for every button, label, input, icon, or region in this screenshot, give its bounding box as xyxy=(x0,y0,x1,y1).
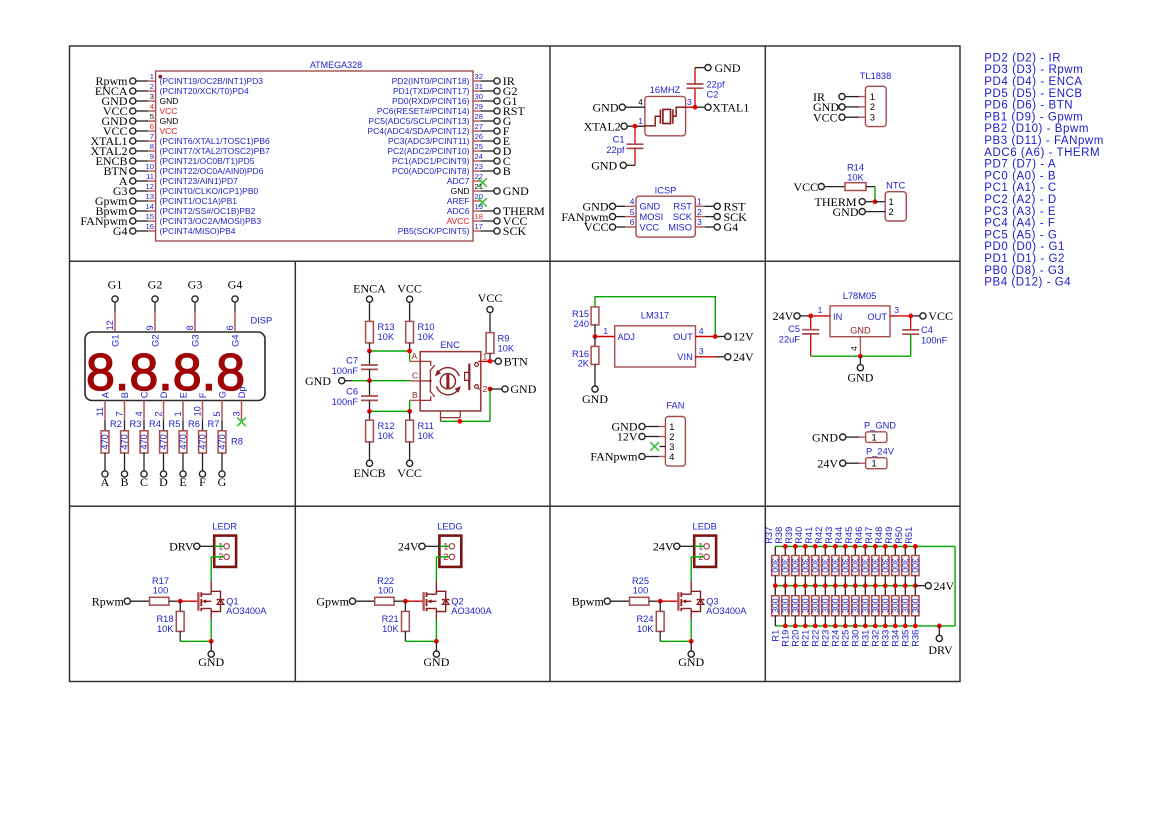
svg-text:R45: R45 xyxy=(844,527,854,544)
wire Q2 source to GND xyxy=(405,612,436,642)
svg-text:100: 100 xyxy=(633,585,649,595)
svg-text:3: 3 xyxy=(669,442,674,452)
junction bottom rail xyxy=(823,624,828,629)
GND terminal below C1 xyxy=(591,159,635,173)
svg-text:R22: R22 xyxy=(811,630,821,647)
svg-text:GND: GND xyxy=(593,100,619,114)
resistor R37 300 (top) xyxy=(764,527,780,586)
svg-text:300: 300 xyxy=(910,558,920,573)
svg-text:8: 8 xyxy=(185,325,195,330)
connector U2 TL1838 body xyxy=(860,71,892,127)
svg-text:(PCINT4/MISO)PB4: (PCINT4/MISO)PB4 xyxy=(160,226,236,236)
svg-text:7: 7 xyxy=(115,411,125,416)
net ENCB terminal xyxy=(353,460,385,480)
junction bottom rail xyxy=(843,624,848,629)
U1 pin 8 PB7 / net XTAL2 xyxy=(90,142,270,158)
svg-text:(PCINT0/CLKO/ICP1)PB0: (PCINT0/CLKO/ICP1)PB0 xyxy=(160,186,259,196)
svg-text:AO3400A: AO3400A xyxy=(706,606,747,616)
svg-text:240: 240 xyxy=(573,319,589,329)
svg-text:5: 5 xyxy=(150,112,154,121)
DS1 top pin 9 G2 / net G2 xyxy=(145,278,162,347)
svg-text:VCC: VCC xyxy=(584,220,609,234)
wire Q1 source to GND xyxy=(180,612,211,642)
resistor R44 300 (top) xyxy=(834,527,850,586)
svg-text:PC4 (A4) - F: PC4 (A4) - F xyxy=(984,218,1055,230)
svg-text:LM317: LM317 xyxy=(641,311,669,321)
resistor R12 10K xyxy=(366,411,395,460)
resistor R10 10K xyxy=(406,321,435,351)
svg-text:1: 1 xyxy=(150,72,154,81)
U1 pin 5 GND / net GND xyxy=(102,112,179,128)
svg-text:R1: R1 xyxy=(771,630,781,642)
svg-text:ADC7: ADC7 xyxy=(447,176,470,186)
J3 pin 2 / net 12V xyxy=(617,430,675,444)
junction mid rail xyxy=(833,583,838,588)
U1 pin 15 PB3 / net FANpwm xyxy=(80,212,261,228)
resistor R51 300 (top) xyxy=(904,527,920,586)
junction top rail xyxy=(903,544,908,549)
junction top rail xyxy=(883,544,888,549)
resistor R35 300 (bottom) xyxy=(900,586,910,647)
svg-text:PD4 (D4) - ENCA: PD4 (D4) - ENCA xyxy=(984,76,1082,88)
svg-text:22uF: 22uF xyxy=(779,334,801,344)
wire ENC tab to GND xyxy=(441,389,491,421)
resistor R50 300 (top) xyxy=(894,527,910,586)
resistor R16 2K xyxy=(572,337,599,386)
wire ENCB net to ENC pin B xyxy=(370,400,421,411)
DS1 bottom pin 7 B xyxy=(115,392,130,420)
svg-text:AO3400A: AO3400A xyxy=(451,606,492,616)
junction bottom rail xyxy=(903,624,908,629)
junction bottom rail xyxy=(883,624,888,629)
svg-text:G: G xyxy=(217,391,227,398)
svg-text:1: 1 xyxy=(638,116,643,126)
net F terminal xyxy=(199,471,206,489)
junction mid rail xyxy=(863,583,868,588)
svg-text:12: 12 xyxy=(105,320,115,330)
resistor R41 300 (top) xyxy=(804,527,820,586)
svg-text:GND: GND xyxy=(640,202,661,212)
junction mid rail xyxy=(813,583,818,588)
svg-text:300: 300 xyxy=(870,598,880,613)
net DRV terminal (array) xyxy=(928,626,953,657)
resistor R2 470 xyxy=(100,419,122,471)
resistor R33 300 (bottom) xyxy=(880,586,890,647)
wire LEDG pin 2 to Q2 drain xyxy=(436,557,449,594)
svg-text:C: C xyxy=(139,391,149,398)
svg-text:(PCINT2/SS#/OC1B)PB2: (PCINT2/SS#/OC1B)PB2 xyxy=(160,206,256,216)
U1 pin 4 VCC / net VCC xyxy=(103,102,178,118)
svg-text:300: 300 xyxy=(780,558,790,573)
resistor R25 300 (bottom) xyxy=(840,586,850,647)
svg-text:GND: GND xyxy=(833,205,859,219)
svg-text:26: 26 xyxy=(475,132,483,141)
wire right bus (green) xyxy=(954,546,956,626)
svg-text:R31: R31 xyxy=(861,630,871,647)
U1 pin 1 PD3 / net Rpwm xyxy=(95,72,263,88)
J1 pin 3 MISO / net G4 xyxy=(668,217,738,234)
capacitor C4 100nF xyxy=(902,316,947,356)
svg-text:6: 6 xyxy=(225,325,235,330)
junction 24V/C5 xyxy=(808,314,813,319)
svg-text:G1: G1 xyxy=(110,335,120,347)
svg-text:4: 4 xyxy=(669,452,674,462)
wire ENC pin 1 to BTN xyxy=(481,360,495,362)
net B terminal xyxy=(120,471,128,489)
svg-text:R37: R37 xyxy=(764,527,774,544)
svg-text:PC5(ADC5/SCL/PCINT13): PC5(ADC5/SCL/PCINT13) xyxy=(368,116,469,126)
net GND terminal (LEDB block) xyxy=(678,641,704,669)
U1 pin 23 PC0(ADC0/PCINT8) / net B xyxy=(392,162,511,178)
GND terminal above C2 xyxy=(695,61,741,75)
svg-text:300: 300 xyxy=(860,598,870,613)
svg-text:DRV: DRV xyxy=(928,643,953,657)
svg-text:PD5 (D5) - ENCB: PD5 (D5) - ENCB xyxy=(984,88,1082,100)
junction top rail xyxy=(853,544,858,549)
X1 pin 4 / net GND xyxy=(593,97,645,114)
svg-text:32: 32 xyxy=(475,72,483,81)
svg-text:GND: GND xyxy=(510,382,536,396)
net GND terminal (below R16) xyxy=(582,386,608,406)
svg-text:4: 4 xyxy=(849,346,859,351)
svg-text:17: 17 xyxy=(475,222,483,231)
net GND terminal (right of ENC) xyxy=(490,382,537,396)
svg-text:13: 13 xyxy=(146,192,154,201)
U1 pin 19 ADC6 / net THERM xyxy=(447,202,545,218)
resistor R24 10K xyxy=(636,601,664,641)
resistor R6 470 xyxy=(178,419,200,471)
svg-text:R44: R44 xyxy=(834,527,844,544)
svg-text:7: 7 xyxy=(150,132,154,141)
svg-text:300: 300 xyxy=(780,598,790,613)
U1 pin 11 PD7 / net A xyxy=(119,172,238,188)
DS1 bottom pin 4 C xyxy=(134,391,149,420)
svg-text:4: 4 xyxy=(630,197,635,207)
resistor R39 300 (top) xyxy=(784,527,800,586)
U1 pin 30 PD0(RXD/PCINT16) / net G1 xyxy=(392,92,517,108)
svg-text:R14: R14 xyxy=(847,162,864,172)
U2 pin 3 / net VCC xyxy=(813,110,875,124)
svg-text:R8: R8 xyxy=(231,437,243,447)
resistor R19 300 (bottom) xyxy=(780,586,790,647)
svg-text:G3: G3 xyxy=(190,335,200,347)
resistor R40 300 (top) xyxy=(794,527,810,586)
U1 pin 31 PD1(TXD/PCINT17) / net G2 xyxy=(393,82,517,98)
junction OUT xyxy=(713,334,718,339)
svg-text:C7: C7 xyxy=(346,356,358,366)
svg-text:25: 25 xyxy=(475,142,483,151)
svg-text:R42: R42 xyxy=(814,527,824,544)
svg-text:18: 18 xyxy=(475,212,483,221)
svg-text:VCC: VCC xyxy=(397,466,422,480)
J1 pin 5 MOSI / net FANpwm xyxy=(561,207,663,224)
svg-text:ADJ: ADJ xyxy=(617,332,635,342)
resistor R21 300 (bottom) xyxy=(800,586,810,647)
svg-text:PC3 (A3) - E: PC3 (A3) - E xyxy=(984,206,1056,218)
svg-text:3: 3 xyxy=(894,305,899,315)
resistor R20 300 (bottom) xyxy=(790,586,800,647)
X1 pin 1 / net XTAL2 xyxy=(584,116,645,133)
junction C6/R12 xyxy=(367,409,372,414)
svg-text:(PCINT23/AIN1)PD7: (PCINT23/AIN1)PD7 xyxy=(160,176,239,186)
svg-text:DRV: DRV xyxy=(169,540,194,554)
svg-text:24V: 24V xyxy=(773,309,794,323)
svg-text:27: 27 xyxy=(475,122,483,131)
svg-text:G4: G4 xyxy=(113,224,128,238)
junction top rail xyxy=(783,544,788,549)
svg-text:BTN: BTN xyxy=(504,354,528,368)
U1 pin 13 PB1 / net Gpwm xyxy=(95,192,237,208)
wire OUT feedback loop (green) xyxy=(595,297,715,337)
U1 pin 3 GND / net GND xyxy=(102,92,179,108)
junction top rail xyxy=(893,544,898,549)
svg-text:300: 300 xyxy=(850,558,860,573)
svg-text:470: 470 xyxy=(178,434,188,450)
junction VCC/C4 xyxy=(908,314,913,319)
resistor R1 300 (bottom) xyxy=(770,586,780,642)
net VCC terminal (R10 top) xyxy=(397,282,422,322)
svg-text:Dp: Dp xyxy=(237,386,247,398)
svg-text:R7: R7 xyxy=(208,419,220,429)
svg-text:FAN: FAN xyxy=(666,401,684,411)
IC U1 ATMEGA328 body xyxy=(156,60,473,241)
svg-text:300: 300 xyxy=(860,558,870,573)
svg-text:R30: R30 xyxy=(851,630,861,647)
svg-text:(PCINT7/XTAL2/TOSC2)PB7: (PCINT7/XTAL2/TOSC2)PB7 xyxy=(160,146,270,156)
svg-text:2: 2 xyxy=(154,411,164,416)
svg-text:OUT: OUT xyxy=(673,332,693,342)
regulator U4 L78M05 body xyxy=(830,291,890,336)
svg-text:GND: GND xyxy=(305,374,331,388)
svg-text:R21: R21 xyxy=(801,630,811,647)
svg-text:5: 5 xyxy=(212,411,222,416)
junction bottom rail xyxy=(833,624,838,629)
net GND terminal (encoder common) xyxy=(305,374,420,388)
svg-text:300: 300 xyxy=(870,558,880,573)
DS1 top pin 8 G3 / net G3 xyxy=(185,278,202,347)
svg-text:R15: R15 xyxy=(572,309,589,319)
svg-text:OUT: OUT xyxy=(867,312,887,322)
U1 pin 29 PC6(RESET#/PCINT14) / net RST xyxy=(377,102,526,118)
junction ENC tab xyxy=(458,419,463,424)
svg-text:2: 2 xyxy=(889,207,894,217)
junction R13/C7 xyxy=(367,349,372,354)
svg-text:PD3 (D3) - Rpwm: PD3 (D3) - Rpwm xyxy=(984,64,1083,76)
svg-text:100: 100 xyxy=(153,585,169,595)
DS1 bottom pin 10 F xyxy=(193,392,208,420)
svg-text:100nF: 100nF xyxy=(921,336,948,346)
junction top rail xyxy=(793,544,798,549)
net Gpwm terminal xyxy=(316,594,374,608)
wire Q3 source to GND xyxy=(660,612,691,642)
svg-text:PC1 (A1) - C: PC1 (A1) - C xyxy=(984,182,1056,194)
svg-text:PC1(ADC1/PCINT9): PC1(ADC1/PCINT9) xyxy=(392,156,470,166)
ENC switch contacts A/C/B xyxy=(412,351,435,401)
svg-text:PD2 (D2) - IR: PD2 (D2) - IR xyxy=(984,52,1061,64)
svg-text:B: B xyxy=(120,392,130,398)
net GND terminal (LEDR block) xyxy=(198,641,224,669)
resistor R36 300 (bottom) xyxy=(910,586,920,647)
svg-text:R4: R4 xyxy=(149,419,161,429)
svg-text:R50: R50 xyxy=(894,527,904,544)
wire 24V rail top (green) xyxy=(775,545,955,547)
svg-text:R39: R39 xyxy=(784,527,794,544)
junction top rail xyxy=(843,544,848,549)
svg-text:PB3 (D11) - FANpwm: PB3 (D11) - FANpwm xyxy=(984,135,1104,147)
junction bottom rail xyxy=(793,624,798,629)
svg-text:GND: GND xyxy=(198,655,224,669)
resistor R47 300 (top) xyxy=(864,527,880,586)
svg-text:B: B xyxy=(412,390,418,400)
svg-text:Rpwm: Rpwm xyxy=(92,594,125,608)
net DRV terminal (LEDR pin 1) xyxy=(169,540,224,554)
resistor R48 300 (top) xyxy=(874,527,890,586)
svg-text:10K: 10K xyxy=(378,431,395,441)
svg-text:R2: R2 xyxy=(110,419,122,429)
junction mid rail xyxy=(793,583,798,588)
svg-text:R13: R13 xyxy=(378,322,395,332)
U1 pin 28 PC5(ADC5/SCL/PCINT13) / net G xyxy=(368,112,511,128)
net Rpwm terminal xyxy=(92,594,150,608)
svg-text:10K: 10K xyxy=(382,624,399,634)
net VCC terminal xyxy=(794,180,846,194)
svg-text:11: 11 xyxy=(146,172,154,181)
svg-text:24V: 24V xyxy=(934,579,955,593)
junction top rail xyxy=(813,544,818,549)
svg-text:1: 1 xyxy=(603,326,608,336)
net 24V terminal (LEDB pin 1) xyxy=(653,540,704,554)
svg-text:PC2(ADC2/PCINT10): PC2(ADC2/PCINT10) xyxy=(387,146,469,156)
DS1 bottom pin 1 E xyxy=(173,392,188,420)
resistor R18 10K xyxy=(156,601,184,641)
net BTN terminal xyxy=(495,354,528,368)
svg-text:300: 300 xyxy=(820,598,830,613)
svg-text:VCC: VCC xyxy=(160,106,178,116)
svg-text:300: 300 xyxy=(790,558,800,573)
svg-text:R46: R46 xyxy=(854,527,864,544)
svg-text:22pf: 22pf xyxy=(606,145,625,155)
svg-text:IN: IN xyxy=(833,312,842,322)
svg-text:R10: R10 xyxy=(418,322,435,332)
svg-text:G3: G3 xyxy=(188,278,203,292)
U1 pin 27 PC4(ADC4/SDA/PCINT12) / net F xyxy=(367,122,509,138)
svg-text:PC0(ADC0/PCINT8): PC0(ADC0/PCINT8) xyxy=(392,166,470,176)
svg-text:PD0 (D0) - G1: PD0 (D0) - G1 xyxy=(984,241,1065,253)
svg-text:GND: GND xyxy=(678,655,704,669)
no-connect X on Dp pin xyxy=(237,418,246,427)
svg-text:R40: R40 xyxy=(794,527,804,544)
svg-text:PB0 (D8) - G3: PB0 (D8) - G3 xyxy=(984,265,1064,277)
svg-text:ICSP: ICSP xyxy=(655,186,677,196)
svg-text:2: 2 xyxy=(669,432,674,442)
svg-text:10: 10 xyxy=(146,162,154,171)
capacitor C6 100nF xyxy=(332,381,378,412)
svg-text:14: 14 xyxy=(146,202,154,211)
resistor R23 300 (bottom) xyxy=(820,586,830,647)
svg-text:24V: 24V xyxy=(653,540,674,554)
J1 pin 4 GND / net GND xyxy=(583,197,661,214)
junction bottom rail xyxy=(813,624,818,629)
junction R11/pin B xyxy=(407,409,412,414)
svg-text:ENCA: ENCA xyxy=(353,282,386,296)
U3 pin 1 ADJ wire xyxy=(595,326,615,337)
svg-text:C6: C6 xyxy=(346,387,358,397)
resistor R32 300 (bottom) xyxy=(870,586,880,647)
U1 pin 7 PB6 / net XTAL1 xyxy=(90,132,270,148)
junction XTAL1 / C2 xyxy=(693,105,698,110)
svg-text:LEDG: LEDG xyxy=(437,522,462,532)
svg-text:2K: 2K xyxy=(578,359,590,369)
svg-text:28: 28 xyxy=(475,112,483,121)
J1 pin 6 VCC / net VCC xyxy=(584,217,660,234)
svg-text:(PCINT21/OC0B/T1)PD5: (PCINT21/OC0B/T1)PD5 xyxy=(160,156,255,166)
svg-text:NTC: NTC xyxy=(886,181,905,191)
svg-text:PC6(RESET#/PCINT14): PC6(RESET#/PCINT14) xyxy=(377,106,470,116)
U1 pin 17 PB5(SCK/PCINT5) / net SCK xyxy=(398,222,527,238)
pin mapping notes xyxy=(984,52,1104,288)
svg-text:VCC: VCC xyxy=(928,309,953,323)
svg-text:31: 31 xyxy=(475,82,483,91)
wire gate of Q3 xyxy=(660,600,677,602)
junction C7/C6 on GND wire xyxy=(367,378,372,383)
svg-text:FANpwm: FANpwm xyxy=(590,450,638,464)
svg-text:G2: G2 xyxy=(150,335,160,347)
svg-text:16: 16 xyxy=(146,222,154,231)
svg-text:ADC6 (A6) - THERM: ADC6 (A6) - THERM xyxy=(984,147,1100,159)
svg-text:2: 2 xyxy=(483,384,488,394)
svg-text:A: A xyxy=(101,475,110,489)
svg-text:PD7 (D7) - A: PD7 (D7) - A xyxy=(984,159,1056,171)
junction mid rail xyxy=(913,583,918,588)
svg-text:3: 3 xyxy=(699,346,704,356)
resistor R3 470 xyxy=(120,419,142,471)
wire gate of Q1 xyxy=(180,600,197,602)
U1 pin 18 AVCC / net VCC xyxy=(447,212,528,228)
svg-text:R6: R6 xyxy=(188,419,200,429)
svg-text:300: 300 xyxy=(840,598,850,613)
P_GND pin 1 / net GND xyxy=(812,430,866,444)
U1 pin 21 GND / net GND xyxy=(451,182,530,198)
svg-text:15: 15 xyxy=(146,212,154,221)
svg-text:R35: R35 xyxy=(901,630,911,647)
svg-text:24V: 24V xyxy=(733,350,754,364)
svg-text:XTAL2: XTAL2 xyxy=(584,119,621,133)
svg-text:ADC6: ADC6 xyxy=(447,206,470,216)
capacitor C1 22pf xyxy=(606,126,643,165)
svg-text:300: 300 xyxy=(900,558,910,573)
resistor R17 100 xyxy=(150,576,181,605)
net ENCA terminal xyxy=(353,282,386,322)
svg-text:B: B xyxy=(120,475,128,489)
svg-text:R9: R9 xyxy=(498,334,510,344)
junction top rail xyxy=(833,544,838,549)
crystal X1 16MHZ body xyxy=(645,85,686,136)
svg-text:G2: G2 xyxy=(148,278,163,292)
svg-text:(PCINT1/OC1A)PB1: (PCINT1/OC1A)PB1 xyxy=(160,196,238,206)
junction bottom rail xyxy=(913,624,918,629)
ENC rotary knob glyph xyxy=(435,368,461,395)
svg-text:2: 2 xyxy=(150,82,154,91)
U1 pin 25 PC2(ADC2/PCINT10) / net D xyxy=(387,142,511,158)
svg-text:100nF: 100nF xyxy=(332,397,359,407)
U3 pin 4 OUT / net 12V xyxy=(696,326,755,344)
DS1 bottom pin 2 D xyxy=(154,391,169,420)
resistor R22 100 xyxy=(375,576,406,605)
svg-text:300: 300 xyxy=(830,558,840,573)
svg-text:SCK: SCK xyxy=(673,212,693,222)
junction BTN xyxy=(488,359,493,364)
svg-text:AVCC: AVCC xyxy=(447,216,470,226)
